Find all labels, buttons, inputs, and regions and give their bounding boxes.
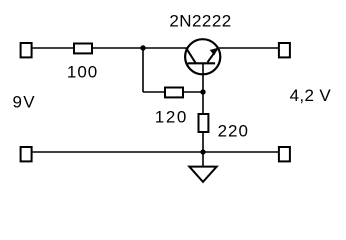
resistor R1: [74, 44, 92, 54]
wire bottom rail: [33, 151, 279, 153]
svg-text:220: 220: [218, 122, 249, 141]
wire Q1 emitter to P2: [219, 47, 279, 49]
wire node A row to R2: [143, 91, 165, 93]
terminal P4 (bottom-right): [279, 147, 290, 161]
wire node B to R3: [202, 92, 204, 114]
svg-text:2N2222: 2N2222: [169, 12, 231, 31]
node C junction dot: [200, 149, 205, 154]
node B junction dot: [200, 89, 205, 94]
wire node A down: [142, 48, 144, 92]
wire Q1 base lead to node B: [202, 63, 204, 92]
wire R2 to node B: [184, 91, 203, 93]
wire R3 to bottom rail: [202, 133, 204, 153]
resistor R3: [199, 114, 209, 132]
terminal P3 (bottom-left): [21, 147, 32, 161]
terminal P1 (9V input, top-left): [21, 43, 32, 57]
wire node C to ground: [202, 152, 204, 167]
wire R1 to Q1 collector (top rail): [93, 47, 188, 49]
svg-text:120: 120: [155, 108, 188, 127]
ground: [189, 167, 216, 182]
transistor Q1 2N2222: [185, 39, 220, 74]
node A junction dot: [140, 45, 145, 50]
wire P1 to R1: [33, 47, 74, 49]
resistor R2: [165, 88, 183, 98]
svg-text:100: 100: [67, 62, 98, 81]
svg-text:9V: 9V: [13, 93, 36, 112]
terminal P2 (4.2V output, top-right): [279, 43, 290, 57]
svg-text:4,2 V: 4,2 V: [290, 86, 332, 105]
